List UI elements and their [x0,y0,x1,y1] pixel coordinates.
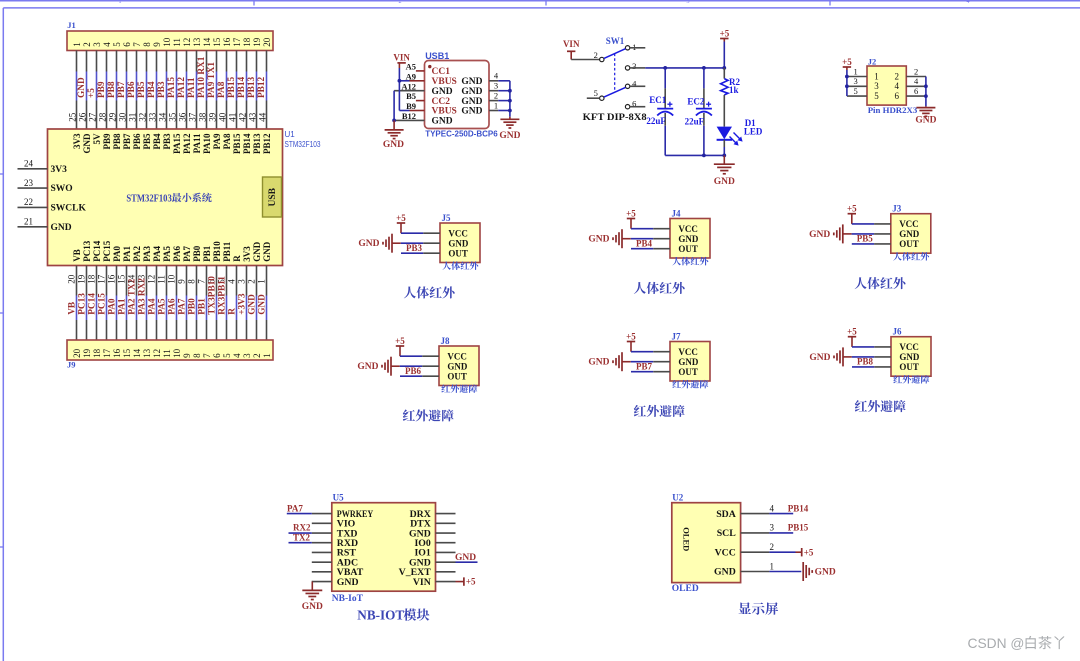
svg-text:A12: A12 [401,81,416,91]
wire net PB15 to U2 SCL [769,523,808,533]
svg-text:33: 33 [148,112,158,122]
svg-text:PA12: PA12 [182,133,192,154]
svg-text:2: 2 [895,71,900,81]
wire ground to J7 GND [622,361,670,363]
junction J2-6 [924,94,928,98]
svg-text:GND: GND [77,77,87,98]
svg-text:11: 11 [162,349,172,358]
svg-text:GND: GND [915,115,936,125]
svg-text:PB10: PB10 [212,241,222,262]
svg-text:PB15: PB15 [788,523,809,533]
svg-text:32: 32 [138,113,148,122]
svg-text:13: 13 [192,37,202,47]
svg-text:22uF: 22uF [685,117,705,127]
svg-text:1: 1 [853,66,857,76]
svg-text:USB: USB [268,187,278,206]
IC U1 STM32F103 minimal system [48,129,283,266]
svg-text:NB-IOT: NB-IOT [357,608,404,623]
ground at J4 [588,229,622,248]
svg-text:J2: J2 [868,56,877,66]
wire U1-17 to J9-17 net PC15 [96,266,107,341]
svg-text:PB8: PB8 [107,81,117,98]
svg-text:OUT: OUT [899,239,919,249]
USB1 right pin 1 (GND) [489,100,498,110]
svg-text:PB8: PB8 [857,357,874,367]
svg-text:2: 2 [914,66,918,76]
svg-text:20: 20 [262,37,272,47]
svg-text:1: 1 [770,561,775,571]
connector J8 (IR obstacle sensor) [439,336,479,386]
svg-text:Pin HDR2X3: Pin HDR2X3 [868,105,918,115]
wire J1-7 to U1-31 net PB5 [128,51,147,130]
svg-text:PA6: PA6 [172,245,182,261]
svg-text:3: 3 [242,353,252,358]
svg-text:+5: +5 [847,204,857,214]
svg-text:PB1: PB1 [202,245,212,262]
svg-text:2: 2 [82,42,92,47]
svg-text:PA8: PA8 [222,133,232,149]
svg-text:GND: GND [248,294,258,315]
svg-text:35: 35 [168,112,178,122]
svg-text:+5: +5 [842,57,852,67]
svg-text:GND: GND [899,229,920,239]
svg-text:17: 17 [96,274,106,284]
connector J9 [67,340,273,370]
wire A12 B12 to ground [393,91,395,121]
power +5 at J6 [847,327,857,347]
svg-text:GND: GND [461,87,482,97]
junction top rail at EC2 [702,66,706,70]
svg-text:PB8: PB8 [112,133,122,150]
svg-text:PA5: PA5 [158,298,168,315]
svg-text:16: 16 [106,274,116,284]
svg-text:VBUS: VBUS [432,77,457,87]
svg-text:J6: J6 [893,327,903,337]
wire J1-15 to U1-39 net PA8 [208,51,227,130]
svg-text:VB: VB [72,249,82,262]
svg-text:31: 31 [128,113,138,122]
svg-text:GND: GND [51,223,72,233]
connector J2 Pin HDR2X3 [867,56,918,115]
wire net TX2 to U5 RXD [289,532,312,542]
svg-text:GND: GND [815,568,836,578]
wire U1-3 to J9-3 net +3V3 [236,266,247,341]
svg-text:3: 3 [632,61,636,71]
svg-text:PC15: PC15 [98,293,108,315]
svg-text:CC1: CC1 [432,67,451,77]
svg-text:GND: GND [461,97,482,107]
connector J3 (PIR sensor) [891,204,931,254]
wire net RX2 to U5 TXD [289,523,312,533]
svg-text:3V3: 3V3 [242,246,252,262]
svg-text:PB5: PB5 [137,81,147,98]
svg-text:15: 15 [116,274,126,284]
wire ground to J8 GND [391,365,439,367]
U5 left pin TXD stub [312,532,332,534]
svg-text:17: 17 [232,37,242,47]
U5 right pin V_EXT stub [436,571,456,573]
wire net GND at U5 right [455,553,478,563]
svg-text:PB12: PB12 [262,133,272,154]
svg-text:PB11: PB11 [222,241,232,262]
svg-text:+5: +5 [87,88,97,98]
svg-text:GND: GND [357,362,378,372]
svg-text:GND: GND [262,241,272,262]
svg-text:PA10: PA10 [202,133,212,154]
svg-text:PB13: PB13 [247,76,257,98]
module U5 NB-IoT [332,493,436,604]
svg-text:20: 20 [72,348,82,358]
svg-text:12: 12 [152,349,162,358]
svg-text:PB4: PB4 [147,81,157,98]
U5 right pin DRX stub [436,513,456,515]
svg-text:OLED: OLED [672,584,699,594]
svg-text:19: 19 [82,348,92,358]
LED D1 [717,118,763,155]
SW1 pin 1 stub [630,47,646,49]
wire +5 to J3 VCC [852,223,891,225]
wire net PB7 to J7 OUT [631,362,670,372]
U1 left pin 23 (SWO) [18,178,73,194]
wire U1-2 to J9-2 net GND [246,266,257,341]
svg-text:GND: GND [383,140,404,150]
wire J1-16 to U1-40 net PB15 [218,51,237,130]
wire J1-3 to U1-27 net PB9 [88,51,107,130]
svg-text:39: 39 [208,112,218,122]
svg-text:PB0: PB0 [188,298,198,315]
svg-text:14: 14 [202,37,212,47]
ground at U2 GND [769,562,835,581]
wire +5 to J5 VCC [401,232,440,234]
svg-text:17: 17 [102,348,112,358]
junction bottom rail at D1 [722,154,726,158]
USB1 pin B5 (CC2) [406,91,424,101]
svg-text:PB12: PB12 [257,76,267,98]
svg-text:27: 27 [88,112,98,122]
svg-text:PA9: PA9 [212,133,222,149]
svg-text:CC2: CC2 [432,97,451,107]
J5 captions [404,261,478,298]
wire J1-2 to U1-26 net +5 [78,51,97,130]
svg-text:SDA: SDA [716,509,736,520]
U2 pin 2 stub [741,542,774,552]
svg-text:TYPEC-250D-BCP6: TYPEC-250D-BCP6 [425,130,498,139]
wire VIN to SW1 pin 2 [571,59,599,61]
svg-text:GND: GND [678,234,699,244]
wire J1-6 to U1-30 net PB6 [118,51,137,130]
wire net PA7 to U5 PWRKEY [287,503,312,513]
svg-text:34: 34 [158,112,168,122]
svg-text:1: 1 [494,100,498,110]
SW1 pin 6 stub [630,106,646,108]
svg-text:PB7: PB7 [117,81,127,98]
svg-text:VCC: VCC [448,228,468,238]
SW1 pin 5 stub [587,97,600,99]
svg-text:5: 5 [874,91,879,101]
ground at USB1 right [499,117,520,141]
svg-text:PA0: PA0 [108,298,118,315]
U5 left pin GND stub [312,581,332,583]
svg-text:PB5: PB5 [857,234,874,244]
svg-text:VIN: VIN [563,39,580,49]
wire +5 to J7 VCC [631,351,670,353]
power +5 at J2 [842,57,852,70]
svg-text:PA1: PA1 [122,245,132,261]
svg-text:2: 2 [770,542,775,552]
svg-text:+5: +5 [395,336,405,346]
svg-text:PC14: PC14 [92,240,102,261]
svg-text:J8: J8 [441,336,451,346]
wire +5 to J8 VCC [400,355,439,357]
svg-text:PC14: PC14 [88,293,98,315]
svg-text:PA7: PA7 [182,245,192,261]
svg-text:30: 30 [118,112,128,122]
svg-text:19: 19 [76,274,86,284]
U5 left pin RXD stub [312,542,332,544]
SW1 pin 4 stub [630,85,646,87]
power +5 at J4 [626,209,636,229]
svg-text:GND: GND [258,294,268,315]
power +5 at J3 [847,204,857,224]
svg-text:5: 5 [112,42,122,47]
svg-text:PB3: PB3 [406,243,423,253]
svg-text:6: 6 [914,86,918,96]
junctions on right GND bus [508,89,512,113]
junction at A9 [398,79,402,83]
svg-text:OUT: OUT [678,244,698,254]
svg-text:GND: GND [714,567,736,578]
ground at J8 [357,357,391,376]
svg-text:KFT DIP-8X8: KFT DIP-8X8 [583,112,647,123]
svg-text:4: 4 [895,81,900,91]
connector USB1 TYPEC-250D-BCP6 [425,51,499,139]
svg-text:13: 13 [142,348,152,358]
svg-text:SW1: SW1 [606,36,625,46]
svg-text:11: 11 [156,275,166,284]
wire U1-1 to J9-1 net GND [256,266,267,341]
svg-text:GND: GND [499,131,520,141]
USB1 pin A5 (CC1) [406,62,425,72]
svg-text:PB14: PB14 [788,503,809,513]
svg-text:PB7: PB7 [636,362,653,372]
junction at B12 [392,119,396,123]
svg-text:41: 41 [228,113,238,122]
power VIN at USB1 [393,52,410,68]
svg-text:PA3: PA3 [142,245,152,261]
svg-text:PA6: PA6 [168,298,178,315]
svg-text:2: 2 [494,90,498,100]
wire J1-5 to U1-29 net PB7 [108,51,127,130]
svg-text:20: 20 [66,274,76,284]
svg-text:18: 18 [242,37,252,47]
J2 left pin 1 [847,66,867,76]
svg-text:PB9: PB9 [102,133,112,150]
svg-text:SWCLK: SWCLK [51,203,87,213]
svg-text:6: 6 [122,42,132,47]
svg-text:+5: +5 [847,327,857,337]
svg-text:4: 4 [967,0,970,5]
svg-text:VCC: VCC [715,547,736,558]
svg-text:19: 19 [252,37,262,47]
capacitor EC2 22uF [685,68,712,155]
power +5 at U5 VIN [456,577,477,587]
svg-text:9: 9 [182,353,192,358]
svg-text:22uF: 22uF [646,116,666,126]
svg-text:PB3: PB3 [162,133,172,150]
svg-text:VCC: VCC [899,342,919,352]
wire net PB5 to J3 OUT [852,234,891,244]
svg-text:+5: +5 [804,547,814,557]
svg-text:3: 3 [236,279,246,284]
svg-text:+5: +5 [466,577,476,587]
U5 left pin VBAT stub [312,571,332,573]
U1 top pin names [72,133,272,154]
power +5 at U2 VCC [769,547,813,557]
wire U1-19 to J9-19 net PC13 [76,266,87,341]
switch SW1 KFT DIP-8X8 [583,36,647,123]
wire J1-11 to U1-35 net PA12 [168,51,187,130]
wire U1-8 to J9-8 net PB0 [186,266,197,341]
capacitor EC1 22uF [646,68,673,155]
power VIN at SW1 [563,39,580,59]
wire U1-5 to J9-5 net RX3PB11 [216,266,227,341]
svg-text:+5: +5 [626,209,636,219]
svg-text:B9: B9 [406,101,416,111]
svg-text:26: 26 [78,112,88,122]
svg-text:3V3: 3V3 [72,133,82,149]
svg-text:5: 5 [594,88,598,98]
svg-text:EC2: EC2 [687,96,705,106]
svg-text:7: 7 [132,42,142,47]
svg-text:6: 6 [895,91,900,101]
svg-text:PB9: PB9 [97,81,107,98]
svg-text:GND: GND [809,353,830,363]
SW1 pin 3 stub [630,67,646,69]
svg-text:8: 8 [192,353,202,358]
svg-text:PA0: PA0 [112,245,122,261]
U2 pin 3 stub [741,523,775,533]
resistor R2 1k [721,68,741,127]
svg-text:4: 4 [102,42,112,47]
ground at U5 [302,590,323,612]
U1 designator [285,130,321,149]
svg-text:PB6: PB6 [405,366,422,376]
svg-text:4: 4 [770,503,775,513]
svg-text:U1: U1 [285,130,296,139]
svg-text:PC15: PC15 [102,240,112,261]
svg-text:GND: GND [588,358,609,368]
wire J1-17 to U1-41 net PB14 [228,51,247,130]
svg-text:CSDN @: CSDN @ [968,636,1025,651]
svg-text:40: 40 [218,112,228,122]
svg-text:B12: B12 [402,111,416,121]
svg-text:12: 12 [182,38,192,47]
svg-text:44: 44 [258,112,268,122]
wire bottom rail [665,154,724,156]
svg-text:GND: GND [461,77,482,87]
junction top rail at EC1 [663,66,667,70]
svg-text:18: 18 [92,348,102,358]
USB1 pin A12 (GND) [394,81,424,91]
wire U1-11 to J9-11 net PA5 [156,266,167,341]
wire ground to J5 GND [392,242,440,244]
USB1 pin B9 (VBUS) [406,101,424,111]
svg-text:VCC: VCC [678,224,698,234]
svg-text:3: 3 [687,0,690,5]
J4 captions [634,257,708,294]
J6 captions [855,375,929,412]
svg-text:1: 1 [874,71,879,81]
connector J4 (PIR sensor) [670,209,710,259]
svg-text:VIN: VIN [393,52,410,62]
U5 left pin RST stub [312,551,332,553]
wire J1-8 to U1-32 net PB4 [138,51,157,130]
svg-text:PB4: PB4 [152,133,162,150]
svg-text:15: 15 [212,37,222,47]
svg-text:PA15: PA15 [167,77,177,98]
wire +5 to J2 pins 1 3 5 [846,70,848,96]
USB1 right pin 3 (GND) [489,81,498,91]
wire J1-13 to U1-37 net PA10 RX1 [188,51,207,130]
wire J1-12 to U1-36 net PA11 [178,51,197,130]
svg-text:PA11: PA11 [192,133,202,153]
svg-text:6: 6 [212,353,222,358]
svg-text:R: R [228,308,238,315]
U5 left pin ADC stub [312,561,332,563]
power +5 above R2 [720,29,730,42]
U5 right pin GND stub [436,561,456,563]
svg-text:TX2: TX2 [293,532,311,542]
wire +5 down to top rail [723,42,725,68]
svg-text:PA11: PA11 [187,77,197,98]
U5 caption NB-IOT module [357,608,429,623]
U5 left pin PWRKEY stub [312,513,332,515]
svg-text:7: 7 [196,279,206,284]
svg-text:J1: J1 [67,20,76,30]
wire U1-7 to J9-7 net PB1 [196,266,207,341]
svg-text:5V: 5V [92,133,102,145]
connector J5 (PIR sensor) [440,213,480,263]
junction J2-3 [845,84,849,88]
svg-text:3: 3 [494,81,498,91]
svg-text:29: 29 [108,112,118,122]
svg-text:J3: J3 [892,204,902,214]
svg-text:PB15: PB15 [232,133,242,154]
svg-text:VBUS: VBUS [432,107,457,117]
svg-text:LED: LED [744,126,763,136]
svg-text:OUT: OUT [447,371,467,381]
connector J7 (IR obstacle sensor) [670,332,710,382]
svg-text:42: 42 [238,113,248,122]
svg-text:GND: GND [455,553,476,563]
svg-text:PB1: PB1 [198,298,208,315]
svg-text:15: 15 [122,348,132,358]
svg-text:PB0: PB0 [192,245,202,262]
svg-text:VB: VB [68,302,78,315]
USB1 right pin 2 (GND) [489,90,498,100]
wire ground to J3 GND [843,233,891,235]
connector J6 (IR obstacle sensor) [891,327,931,377]
svg-text:GND: GND [448,238,469,248]
junction J2-4 [924,84,928,88]
svg-text:SCL: SCL [717,528,737,539]
svg-text:PB7: PB7 [122,133,132,150]
svg-text:9: 9 [152,42,162,47]
J2 right pin 6 [906,86,926,96]
wire U1-10 to J9-10 net PA6 [166,266,177,341]
svg-text:B5: B5 [406,91,416,101]
svg-text:3: 3 [770,523,775,533]
